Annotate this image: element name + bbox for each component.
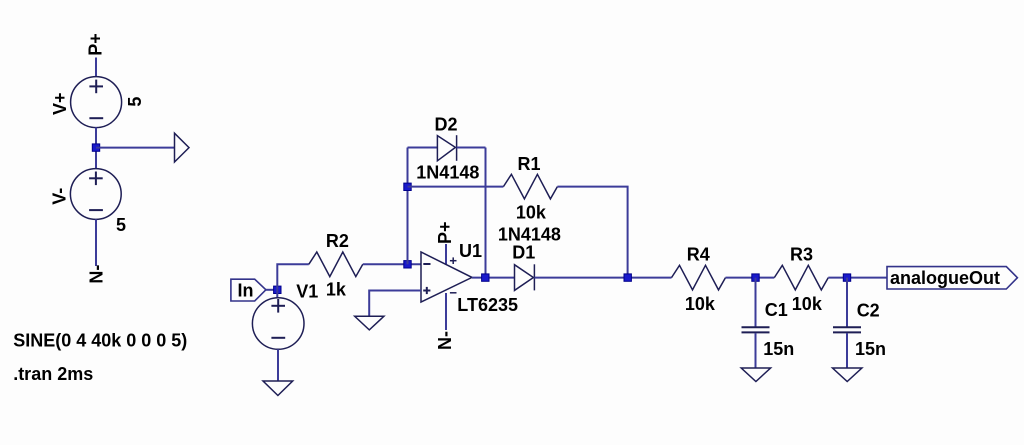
- svg-text:V-: V-: [50, 188, 70, 205]
- wire: [95, 219, 97, 266]
- svg-text:15n: 15n: [763, 339, 794, 359]
- svg-text:15n: 15n: [855, 339, 886, 359]
- wire: [457, 147, 486, 149]
- node P+ opamp label: [435, 221, 455, 244]
- svg-text:U1: U1: [459, 241, 482, 261]
- wire: [445, 293, 447, 330]
- svg-text:.tran 2ms: .tran 2ms: [13, 364, 93, 384]
- wire: [846, 333, 848, 368]
- svg-text:N-: N-: [435, 331, 455, 350]
- spice directive SINE: [13, 331, 187, 351]
- resistor R3: [774, 244, 828, 314]
- op-amp U1: [421, 241, 518, 315]
- node junction In: [274, 286, 281, 293]
- diode D2: [416, 115, 479, 183]
- wire: [445, 244, 447, 265]
- wire non-inverting input: [369, 291, 421, 317]
- svg-text:D1: D1: [512, 242, 535, 262]
- node junction C2: [843, 274, 850, 281]
- node junction C1: [752, 274, 759, 281]
- svg-text:In: In: [238, 280, 254, 300]
- svg-text:D2: D2: [435, 115, 458, 135]
- capacitor C2: [833, 301, 886, 360]
- svg-text:LT6235: LT6235: [457, 295, 518, 315]
- svg-text:R3: R3: [790, 244, 813, 264]
- svg-text:R2: R2: [326, 231, 349, 251]
- svg-text:R4: R4: [687, 244, 710, 264]
- svg-text:V+: V+: [50, 92, 70, 115]
- voltage source V-: [50, 169, 126, 235]
- svg-text:5: 5: [116, 215, 126, 235]
- diode D1: [498, 224, 561, 290]
- resistor R4: [672, 244, 726, 314]
- voltage source V+: [50, 77, 145, 128]
- node junction output: [482, 274, 489, 281]
- ground C1: [741, 368, 770, 382]
- ground opamp: [355, 316, 384, 330]
- resistor R2: [309, 231, 363, 300]
- wire: [96, 147, 175, 149]
- wire: [846, 278, 848, 327]
- wire: [485, 148, 487, 278]
- svg-text:R1: R1: [518, 154, 541, 174]
- node junction between supplies: [92, 144, 99, 151]
- ground V1: [263, 381, 293, 396]
- wire: [266, 289, 277, 291]
- svg-text:analogueOut: analogueOut: [890, 268, 1000, 288]
- node analogueOut flag: [887, 267, 1017, 289]
- node In flag: [231, 279, 266, 301]
- wire: [277, 264, 309, 290]
- svg-text:V1: V1: [296, 281, 318, 301]
- node junction R1 return: [624, 274, 631, 281]
- svg-text:N-: N-: [87, 265, 107, 284]
- wire: [95, 127, 97, 169]
- ground (rotated right): [175, 133, 190, 162]
- wire: [407, 148, 409, 265]
- svg-text:SINE(0 4 40k 0 0 0 5): SINE(0 4 40k 0 0 0 5): [13, 331, 187, 351]
- spice directive .tran: [13, 364, 93, 384]
- svg-text:P+: P+: [85, 33, 105, 56]
- node N- supply label: [87, 265, 107, 284]
- wire: [95, 58, 97, 78]
- wire: [408, 186, 504, 188]
- wire: [755, 278, 757, 327]
- svg-text:1k: 1k: [326, 280, 347, 300]
- node junction feedback: [404, 183, 411, 190]
- wire: [276, 290, 278, 298]
- svg-text:5: 5: [125, 97, 145, 107]
- svg-text:10k: 10k: [685, 294, 716, 314]
- svg-text:1N4148: 1N4148: [498, 224, 561, 244]
- resistor R1: [503, 154, 557, 223]
- node junction inverting input: [404, 261, 411, 268]
- ground C2: [833, 368, 862, 382]
- wire: [408, 147, 438, 149]
- svg-text:10k: 10k: [792, 294, 823, 314]
- svg-text:C2: C2: [857, 301, 880, 321]
- node N- opamp label: [435, 331, 455, 350]
- node P+ supply label: [85, 33, 105, 56]
- voltage source V1: [252, 281, 318, 349]
- svg-text:P+: P+: [435, 221, 455, 244]
- wire: [755, 333, 757, 368]
- svg-text:10k: 10k: [516, 203, 547, 223]
- wire: [277, 349, 279, 381]
- wire: [557, 187, 627, 278]
- wire: [472, 277, 515, 279]
- capacitor C1: [742, 300, 795, 359]
- wire: [828, 277, 887, 279]
- wire: [726, 277, 775, 279]
- svg-text:1N4148: 1N4148: [416, 163, 479, 183]
- svg-text:C1: C1: [765, 300, 788, 320]
- wire: [363, 263, 421, 265]
- wire: [534, 277, 671, 279]
